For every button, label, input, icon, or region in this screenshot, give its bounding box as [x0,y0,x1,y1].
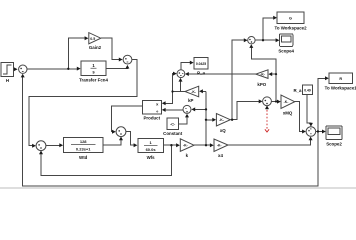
wire riser x276 from node to S6 bottom [251,47,276,101]
wire kP node down to Product top input [165,92,173,104]
wire S2 output long feedback to S3 [29,60,137,146]
svg-text:k: k [186,153,189,158]
wire node to xQ input [206,119,213,121]
wire branch up to To Workspace1 [318,78,326,131]
wire bus1 Wfs node to S3 bottom [41,145,171,175]
wire R_a output to S8 top [307,95,311,124]
wire Constant output to S9 bottom [179,117,188,124]
svg-text:R_a: R_a [293,88,302,93]
wire node to kP input [202,90,206,92]
svg-text:R: R [339,77,342,81]
scope Scope4 [280,34,293,47]
svg-text:128: 128 [80,139,87,144]
display P_a [194,58,208,70]
svg-text:xMQ: xMQ [283,110,293,115]
svg-text:Transfer Fcn4: Transfer Fcn4 [79,78,108,83]
svg-text:0.49: 0.49 [304,88,311,92]
svg-text:-K-: -K- [219,118,224,122]
wire xQ node jog to S7 left [232,101,259,119]
svg-text:x4: x4 [218,153,223,158]
svg-text:Scope4: Scope4 [278,48,294,53]
wire S4 output to Wfs [126,132,134,146]
sum S2 [123,55,132,64]
GAIN TRIANGLES [89,33,295,152]
svg-text:P_a: P_a [197,71,205,76]
wire S7 output to xMQ [271,101,277,103]
sum S8 [306,127,316,137]
svg-text:Scope2: Scope2 [326,142,342,147]
svg-text:60.0s: 60.0s [146,147,157,152]
gain kP (left pointing) [185,86,199,97]
svg-text:0.0425: 0.0425 [196,62,206,66]
sum S3 [36,141,46,151]
transfer fcn Wtd [64,138,104,153]
svg-text:-C-: -C- [170,123,176,127]
wire step to sum S1 [14,68,16,70]
wire kP node to S5 left input [173,74,174,92]
gain Gain2 [89,33,101,44]
wire Product output to S4 left [112,106,143,132]
svg-text:kP: kP [188,98,193,103]
wire x4 output long to S8 bottom [228,140,311,146]
gain xMQ [281,95,295,109]
sum S9 (mirrored) [183,105,191,113]
gain kPO (left pointing) [256,70,268,79]
window bottom edge [0,187,356,189]
wire Gain2 output to S2 [101,38,119,59]
wire xQ output up to S6 left [230,40,244,120]
transfer fcn TransferFcn4 [81,61,106,76]
wire kP output node stub [173,91,186,93]
svg-text:0.5: 0.5 [90,37,95,41]
wire kPO output to S5 right input [188,73,256,75]
wire kP node up to S5 bottom [180,81,182,91]
wire S8 output to Scope2 [316,131,323,133]
svg-text:To Workspace1: To Workspace1 [325,85,356,90]
step source H [1,63,14,77]
svg-text:To Workspace2: To Workspace2 [274,25,307,30]
wire riser x276 to kPO input [271,73,276,75]
svg-text:Product: Product [144,116,161,121]
wire bus2 to S1 bottom [23,77,318,186]
sum S1 [19,65,27,73]
svg-text:Constant: Constant [163,131,183,136]
svg-text:-K-: -K- [260,73,265,77]
svg-text:kPO: kPO [257,82,266,87]
svg-text:-K-: -K- [183,144,188,148]
wire TransferFcn4 output to S2 bottom [106,66,127,68]
wire branch up to Gain2 [68,38,85,69]
to workspace2 [277,12,304,23]
svg-text:Gain2: Gain2 [89,45,102,50]
wire S7 bottom stub [266,108,268,111]
BLOCK INNER TEXT [71,17,342,153]
product block (mirrored) [142,100,161,114]
sum S7 [263,97,272,106]
wire Wfs output to gain k [164,144,177,146]
sum S4 [116,127,126,137]
svg-text:Wfs: Wfs [147,155,156,160]
svg-text:-K-: -K- [191,90,196,94]
SUM CIRCLES [19,37,316,151]
wire S6 output to Scope4 [255,39,276,41]
red dashed unconnected line into S7 bottom [265,110,269,132]
svg-text:Wtd: Wtd [79,155,88,160]
to workspace1 [329,73,353,84]
svg-text:G: G [289,17,292,21]
sum sign ticks [20,39,311,149]
svg-text:-K-: -K- [217,144,222,148]
gain x4 [214,139,228,152]
wire branch up to To Workspace2 [263,18,274,40]
wire S5 output up to P_a [181,63,191,70]
wire node vertical x206 [205,91,207,145]
BLOCKS [1,12,353,152]
wire S3 output to Wtd [46,144,60,146]
ARROWHEADS [14,16,329,154]
sum S6 [248,37,255,44]
svg-text:0.23s+1: 0.23s+1 [76,146,91,151]
wire xMQ output to S8 left [295,102,303,132]
scope Scope2 [326,126,342,140]
wire gain k output to x4 and node [194,144,210,146]
svg-text:xQ: xQ [220,128,226,133]
gain xQ [216,114,230,127]
wire node to sum S9 right input [195,108,207,110]
wire S9 output to Product bottom input [165,109,183,111]
BLOCK LABELS [6,25,356,160]
transfer fcn Wfs [138,139,164,153]
step icon [3,65,11,74]
constant block [167,118,179,130]
display R_a [303,85,313,95]
gain k [180,139,194,152]
svg-text:-K-: -K- [284,100,289,104]
sum S5 [177,70,185,78]
wire Wtd output to S4 bottom [103,138,121,145]
svg-text:H: H [6,78,9,83]
wire S1 output main line [27,68,78,70]
